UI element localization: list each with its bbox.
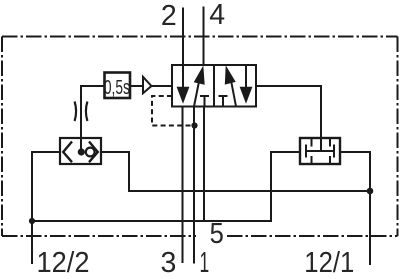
junction dot 12/2: [29, 218, 35, 224]
svg-text:5: 5: [210, 218, 224, 250]
svg-text:12/1: 12/1: [304, 247, 354, 279]
svg-text:2: 2: [161, 0, 177, 32]
shuttle valve right seat: [89, 142, 98, 163]
shuttle valve V2 body: [60, 138, 101, 164]
junction dot pilot to port 1: [191, 122, 197, 128]
wire valve out to silencer top: [256, 86, 321, 151]
svg-text:12/2: 12/2: [37, 247, 90, 279]
valve left position arrow 1-4: [194, 75, 200, 107]
valve right position blocked port T: [219, 96, 228, 107]
shuttle valve outlet feed: [80, 138, 82, 149]
silencer F1 body: [300, 138, 340, 164]
wire port 5 line: [203, 107, 205, 223]
svg-text:4: 4: [209, 0, 225, 31]
enclosure dash-dot border: [2, 37, 398, 237]
wire timer box left to throttle down to shuttle valve: [81, 86, 105, 138]
arrowhead valve 1-4: [194, 66, 205, 85]
wire bus line to silencer left port: [32, 152, 300, 221]
wire shuttle valve left to port 12/2: [32, 152, 60, 264]
arrowhead valve 1-2: [225, 65, 236, 84]
valve right position arrow 4-5: [245, 65, 247, 88]
junction dot 12/1: [367, 188, 374, 195]
wire port 1 line: [193, 107, 195, 264]
wire port 3 line: [182, 107, 184, 264]
wire port 2 line: [182, 8, 184, 66]
svg-text:0,5s: 0,5s: [104, 77, 130, 99]
wire silencer right to port 12/1: [340, 152, 370, 265]
dashed pilot signal line: [152, 96, 195, 126]
wire shuttle valve right to junction: [101, 152, 370, 191]
pilot amplifier triangle: [143, 77, 151, 93]
valve right position arrow 1-2: [230, 75, 236, 107]
svg-text:3: 3: [161, 247, 177, 279]
arrowhead valve 2-3: [177, 87, 190, 104]
valve left position blocked port T: [200, 96, 209, 107]
shuttle valve ball seated: [78, 148, 85, 155]
shuttle valve left seat: [63, 142, 72, 163]
valve left position arrow 2-3: [182, 65, 184, 88]
svg-text:1: 1: [200, 247, 210, 279]
valve U1 5/2-way body: [172, 65, 256, 107]
pilot wire triangle to valve: [152, 85, 173, 87]
wire port 4 line: [203, 7, 205, 66]
arrowhead valve 4-5: [240, 87, 253, 104]
timer box 0,5s: [105, 73, 131, 99]
throttle restrictor arcs: [75, 102, 88, 122]
silencer baffle teeth: [312, 138, 331, 164]
silencer inner beam: [306, 145, 334, 158]
shuttle valve ball circle: [86, 148, 95, 157]
wire timer box to triangle: [130, 85, 143, 87]
